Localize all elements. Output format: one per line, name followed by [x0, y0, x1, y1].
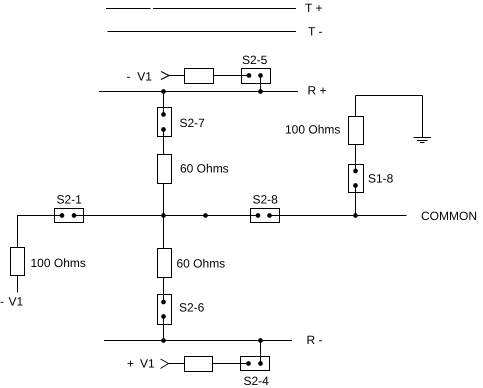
switch S2-1 [55, 209, 84, 223]
source arrow symbol (top) [161, 72, 169, 80]
svg-text:S1-8: S1-8 [368, 172, 394, 186]
junction on R+ at center column [161, 89, 166, 94]
svg-text:60 Ohms: 60 Ohms [180, 162, 229, 176]
wire arrow to resistor (top) [169, 75, 185, 77]
wire S2-5 down to R+ rail [260, 76, 262, 92]
wire T+ rail segment 1 [106, 8, 151, 10]
wire 60 Ohms to COMMON rail [163, 184, 165, 216]
svg-text:R -: R - [307, 333, 323, 347]
source label - V1 (top) [127, 70, 153, 84]
svg-text:V1: V1 [9, 295, 24, 309]
wire T- rail [108, 31, 297, 33]
switch S2-8 [251, 209, 280, 223]
wire S2-7 to 60 Ohms resistor [163, 130, 165, 155]
switch S2-6 [158, 295, 172, 325]
svg-text:S2-4: S2-4 [244, 374, 270, 388]
svg-text:V1: V1 [140, 357, 155, 371]
svg-text:S2-5: S2-5 [242, 53, 268, 67]
resistor 60 Ohms (upper) [158, 155, 172, 184]
svg-text:-: - [0, 295, 4, 309]
wire resistor to S2-4 [213, 363, 249, 365]
switch S1-8 [349, 165, 364, 193]
wire arrow to resistor (bottom) [169, 363, 185, 365]
wire COMMON rail middle segment [74, 215, 258, 217]
junction on R+ at S2-5 [258, 89, 263, 94]
wire 60 Ohms to S2-6 [163, 278, 165, 303]
resistor 60 Ohms (lower) [158, 249, 172, 278]
svg-text:COMMON: COMMON [421, 209, 477, 223]
wire R+ rail [99, 91, 298, 93]
switch S2-5 [242, 69, 271, 84]
resistor 100 Ohms (left) [11, 248, 25, 276]
resistor (bottom, unlabeled) [185, 357, 213, 372]
svg-text:100 Ohms: 100 Ohms [31, 256, 86, 270]
wire COMMON corner down (left branch) [17, 216, 19, 248]
ground [414, 138, 432, 143]
svg-text:S2-1: S2-1 [57, 193, 83, 207]
wire 100 Ohms down to -V1 terminal [17, 276, 19, 293]
wire S2-6 to R- rail [163, 317, 165, 341]
svg-text:-: - [127, 70, 131, 84]
wire T+ rail segment 2 [153, 8, 296, 10]
junction on COMMON at center column [161, 213, 166, 218]
wire COMMON rail left segment [17, 215, 62, 217]
svg-text:60 Ohms: 60 Ohms [177, 257, 226, 271]
svg-text:V1: V1 [137, 70, 152, 84]
wire COMMON rail right segment [270, 215, 407, 217]
resistor 100 Ohms (right) [349, 117, 364, 145]
svg-text:S2-7: S2-7 [180, 116, 206, 130]
wire down to ground [422, 96, 424, 138]
wire COMMON to 60 Ohms (lower) [163, 216, 165, 249]
svg-text:T -: T - [308, 25, 322, 39]
svg-text:100 Ohms: 100 Ohms [285, 123, 340, 137]
wire R+ to S2-7 [163, 92, 165, 115]
svg-text:R +: R + [308, 84, 327, 98]
wire top horizontal to 100 Ohms (right) [355, 96, 357, 117]
switch S2-7 [158, 108, 172, 137]
resistor (top, unlabeled) [185, 69, 214, 84]
junction on R- at S2-4 [258, 338, 263, 343]
source arrow symbol (bottom) [161, 359, 169, 369]
wire R- rail [104, 340, 292, 342]
terminal label - V1 (bottom left) [0, 295, 24, 309]
wire 100 Ohms to S1-8 [355, 145, 357, 172]
svg-text:+: + [127, 357, 134, 371]
wire right branch top horizontal [356, 95, 423, 97]
wire S1-8 to COMMON rail [355, 186, 357, 216]
svg-text:S2-8: S2-8 [253, 193, 279, 207]
source label + V1 (bottom) [127, 357, 155, 371]
junction on R- at center column [161, 338, 166, 343]
wire resistor to S2-5 [214, 75, 250, 77]
junction on COMMON at S1-8 [353, 213, 358, 218]
wire S2-4 up to R- rail [260, 341, 262, 364]
svg-text:S2-6: S2-6 [179, 301, 205, 315]
switch S2-4 [241, 357, 270, 371]
junction on COMMON node [203, 213, 208, 218]
svg-text:T +: T + [305, 1, 322, 15]
